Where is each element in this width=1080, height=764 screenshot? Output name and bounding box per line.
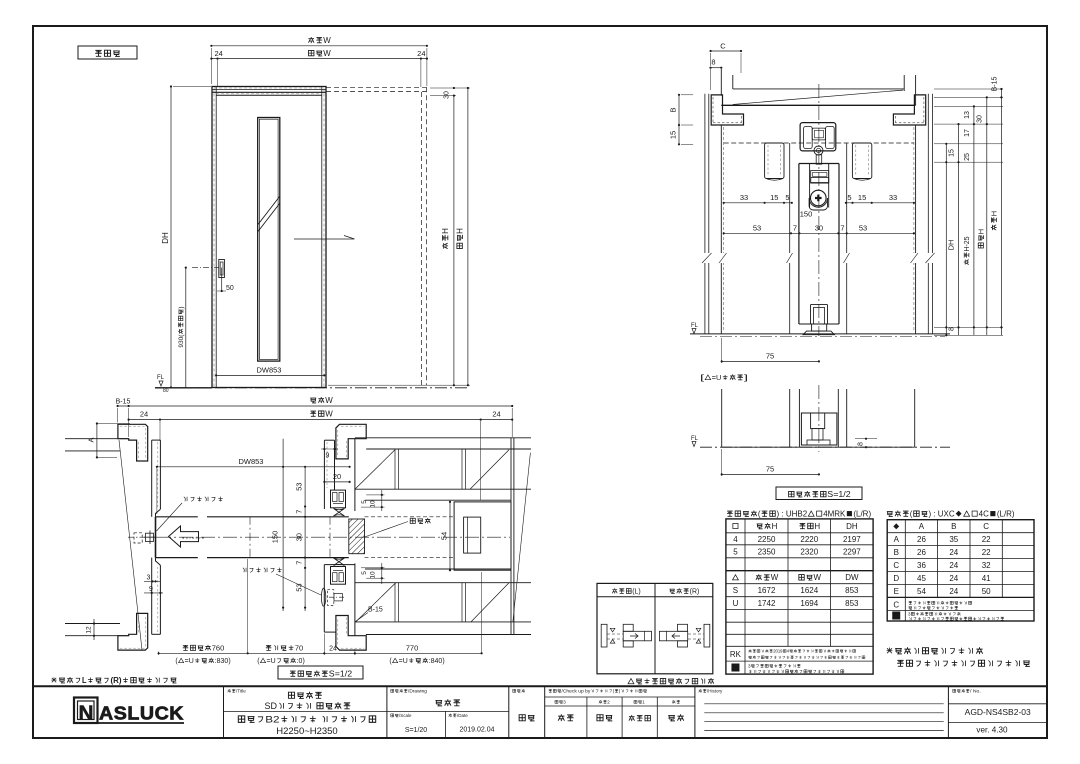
plan: 5/10 dims lower	[381, 563, 383, 584]
plan: lower-right jamb stop strip	[324, 564, 355, 566]
svg-text:(R): (R)	[110, 676, 121, 685]
svg-text:760: 760	[212, 644, 225, 653]
svg-text:U: U	[733, 599, 739, 608]
svg-text:50: 50	[982, 587, 991, 596]
svg-text:N: N	[79, 703, 94, 725]
svg-text:7: 7	[793, 224, 797, 233]
plan: upper truss diagonals	[355, 450, 395, 489]
hanger screw head	[811, 190, 827, 206]
svg-text:RK: RK	[730, 650, 742, 659]
title block cell 図面種別 dividers	[387, 710, 509, 712]
plan: cushion hatched block 緩衝材	[349, 519, 365, 554]
svg-text:9: 9	[326, 453, 330, 460]
table 建具本体 RK note row	[730, 650, 742, 659]
section view: dimension 8	[711, 67, 722, 69]
break gaps in long verticals (section)	[702, 253, 712, 263]
svg-text:150: 150	[800, 210, 813, 219]
sliding direction arrow	[294, 238, 354, 240]
svg-text:AGD-NS4SB2-03: AGD-NS4SB2-03	[965, 707, 1031, 717]
svg-text:930(: 930(	[178, 334, 185, 348]
svg-text:D: D	[893, 574, 899, 583]
svg-text:DH: DH	[161, 232, 170, 244]
table 建具枠 title	[887, 510, 1015, 519]
hanger roller nut	[814, 146, 823, 155]
svg-text:36: 36	[917, 561, 926, 570]
plan: soft-close pin lower jamb	[321, 588, 325, 606]
svg-text:26: 26	[917, 548, 926, 557]
plan: 12 dim	[93, 619, 95, 640]
svg-text:(L/R): (L/R)	[997, 510, 1015, 519]
door bottom guide (section)	[810, 305, 812, 324]
lower sub-view floor dash-dot	[700, 446, 950, 448]
plan: lower pocket wall lines	[365, 568, 511, 570]
svg-text:/ No.: / No.	[970, 689, 981, 694]
label △=Uの場合	[700, 373, 748, 382]
svg-text:A: A	[919, 522, 925, 531]
svg-text:H: H	[990, 211, 999, 216]
lower sub-view centerline	[818, 385, 820, 452]
svg-text:/Check up by: /Check up by	[562, 689, 592, 694]
svg-text:H: H	[456, 228, 465, 234]
right wall verticals (section)	[927, 94, 929, 334]
right handle diagram	[704, 624, 710, 647]
svg-text:70: 70	[295, 644, 303, 653]
door handle	[219, 260, 225, 278]
plan: phantom door dashed in pocket	[365, 516, 455, 518]
svg-text:1672: 1672	[758, 586, 776, 595]
svg-text:FL: FL	[157, 375, 165, 381]
svg-text:9: 9	[149, 586, 153, 593]
dimension 枠内H (right)	[453, 96, 455, 386]
plan: lower-right jamb casing	[336, 616, 366, 651]
svg-text:26: 26	[917, 535, 926, 544]
history cell lines	[704, 703, 943, 705]
svg-text::830): :830)	[215, 658, 231, 665]
svg-text:54: 54	[440, 532, 449, 540]
svg-text:B: B	[894, 548, 899, 557]
svg-text:5: 5	[847, 193, 851, 202]
svg-text:4C: 4C	[979, 510, 989, 519]
plan: catch hardware upper	[331, 490, 346, 508]
svg-text:DW: DW	[845, 573, 859, 582]
svg-text:8: 8	[949, 327, 956, 331]
svg-text:=U: =U	[267, 658, 276, 665]
svg-text:24: 24	[949, 587, 958, 596]
plan: screw bowtie upper	[334, 509, 345, 517]
svg-text:10: 10	[370, 571, 377, 579]
svg-text:2250: 2250	[758, 535, 776, 544]
plan: 5/10 dims upper	[381, 490, 383, 511]
svg-text:H: H	[772, 522, 778, 531]
svg-text:/History: /History	[707, 689, 723, 694]
svg-text:4: 4	[733, 535, 738, 544]
door top mortise for hanger	[809, 164, 811, 208]
svg-text:13: 13	[964, 111, 971, 119]
handle center dash leader	[192, 267, 219, 269]
plan: ビスキャップ label upper	[184, 497, 223, 502]
svg-text:W: W	[325, 396, 333, 405]
svg-text:24: 24	[417, 49, 425, 58]
plan: left jamb stop strip	[152, 439, 161, 441]
svg-text:ASLUCK: ASLUCK	[99, 703, 184, 724]
svg-text:2197: 2197	[843, 535, 861, 544]
plan: ビスキャップ label lower	[243, 568, 282, 573]
svg-text:22: 22	[982, 535, 991, 544]
svg-text:15: 15	[949, 149, 956, 157]
plan: upper-right jamb casing	[336, 424, 366, 459]
pull-handle table 左引手/右引手	[597, 583, 713, 673]
plan: 54 dim	[449, 502, 451, 570]
front view door frame inner lines	[215, 87, 217, 388]
front view door frame outline	[212, 87, 326, 388]
svg-text:1742: 1742	[758, 599, 776, 608]
svg-text:E: E	[894, 587, 899, 596]
note 本図はLを示し	[51, 676, 176, 685]
title block top border	[33, 685, 1047, 687]
right head casing bracket	[893, 95, 925, 125]
plan: right break diagonal	[513, 453, 531, 622]
plan: left jamb lower stop strip	[152, 633, 161, 635]
svg-text:A: A	[894, 535, 900, 544]
svg-text:30: 30	[295, 533, 304, 541]
svg-text:B-15: B-15	[992, 77, 999, 92]
svg-text:(: (	[910, 510, 913, 519]
left head casing bracket	[711, 95, 743, 125]
title block headers tiny	[228, 689, 247, 694]
hanger rail assembly	[800, 123, 836, 151]
floor line (section)	[690, 333, 950, 335]
plan: dimension A (left)	[96, 424, 98, 458]
plan: dimension DW853	[157, 466, 350, 468]
title block cell 名称 divider	[224, 710, 387, 712]
svg-text:32: 32	[982, 561, 991, 570]
svg-text:20: 20	[333, 472, 341, 481]
svg-text:35: 35	[949, 535, 958, 544]
table 建具枠 C note row	[893, 601, 899, 610]
svg-text:2297: 2297	[843, 547, 861, 556]
svg-text:853: 853	[845, 586, 859, 595]
svg-text:53: 53	[859, 224, 867, 233]
dimension DH (left)	[170, 87, 172, 388]
svg-text:/Title: /Title	[236, 689, 246, 694]
svg-text:(L): (L)	[632, 589, 641, 596]
table 建具本体 grid	[726, 519, 873, 674]
svg-text:3: 3	[908, 612, 911, 617]
glass break diagonal marks	[258, 204, 280, 232]
dimension 75 (upper)	[722, 360, 819, 362]
svg-text:30: 30	[815, 224, 823, 233]
svg-text:53: 53	[295, 583, 304, 591]
svg-text:24: 24	[949, 561, 958, 570]
svg-text:C: C	[720, 42, 726, 51]
dimension 枠内W with 24 offsets	[211, 58, 427, 60]
svg-text:3: 3	[147, 575, 151, 582]
svg-text:C: C	[983, 522, 989, 531]
svg-text:S=1/20: S=1/20	[405, 727, 427, 734]
svg-text:53: 53	[295, 483, 304, 491]
hanger stem	[816, 155, 822, 164]
section detail label box 断面詳細図 S=1/2 (bottom)	[278, 666, 363, 679]
svg-text:(R): (R)	[690, 589, 700, 596]
hanging stop blocks	[765, 143, 784, 179]
svg-text:DH: DH	[846, 522, 858, 531]
section detail label box 断面詳細図 S=1/2 (right)	[776, 487, 862, 500]
svg-text::840): :840)	[429, 658, 445, 665]
svg-text::0): :0)	[297, 658, 305, 665]
svg-text:7: 7	[295, 561, 304, 565]
section view: dimension C	[711, 50, 741, 52]
door panel (vertical section)	[799, 163, 839, 165]
svg-text:2019: 2019	[773, 649, 783, 654]
door centerline (dash-dot)	[818, 84, 820, 336]
number cell dividers	[948, 703, 1047, 705]
svg-text:=U: =U	[399, 658, 408, 665]
plan: screw bowtie lower	[334, 558, 345, 566]
svg-text:W: W	[323, 36, 331, 45]
left wall verticals (section)	[704, 94, 706, 334]
plan: extension lines from dims	[117, 408, 119, 422]
svg-text:=U: =U	[185, 658, 194, 665]
svg-text:30: 30	[444, 91, 451, 99]
svg-text:) : UHB2: ) : UHB2	[777, 510, 808, 519]
plan: 9 dim upper-right	[321, 448, 338, 450]
svg-text:B: B	[669, 107, 678, 112]
plan: door centerline	[157, 536, 510, 538]
right dim labels	[949, 149, 956, 157]
plan: wall break diagonal (left)	[119, 440, 142, 650]
svg-text:5: 5	[733, 547, 738, 556]
svg-text:A: A	[87, 437, 96, 442]
svg-text:8: 8	[858, 442, 865, 446]
dimension 8 lower sub-view	[855, 438, 877, 440]
pocket dashed outline (door slides into wall)	[326, 86, 427, 88]
svg-text:FL: FL	[691, 323, 699, 329]
svg-text:5: 5	[785, 193, 789, 202]
svg-text:B: B	[951, 522, 956, 531]
NASLUCK logo	[74, 698, 98, 724]
svg-text:54: 54	[917, 587, 926, 596]
svg-text:(L/R): (L/R)	[853, 510, 871, 519]
svg-text:24: 24	[215, 49, 223, 58]
pocket slot face lines (section)	[789, 143, 791, 334]
plan: lower-left jamb casing	[118, 613, 148, 650]
plan: middle vertical dims 150 and 53/7/30/7/53	[282, 439, 284, 611]
title block texts	[288, 692, 321, 699]
svg-text:/Drawing: /Drawing	[408, 689, 428, 694]
svg-text:53: 53	[753, 224, 761, 233]
svg-text:SD: SD	[264, 701, 277, 711]
lower sub-view verticals (U type)	[721, 389, 723, 447]
svg-text:45: 45	[917, 574, 926, 583]
plan: upper-right jamb stop strip	[324, 439, 334, 441]
FL marker lower sub-view	[691, 436, 699, 442]
svg-text:DW853: DW853	[239, 457, 264, 466]
svg-text:50: 50	[226, 285, 234, 292]
right dim cluster verticals	[945, 144, 947, 335]
svg-text:2350: 2350	[758, 547, 776, 556]
svg-text:24: 24	[949, 574, 958, 583]
svg-text:24: 24	[492, 410, 500, 419]
svg-text:W: W	[323, 49, 331, 58]
note 引手は選択できます	[887, 647, 983, 654]
table 建具枠 ■ note row	[892, 612, 900, 620]
svg-text:25: 25	[964, 153, 971, 161]
dimension 150 label	[800, 210, 813, 219]
svg-text:22: 22	[982, 548, 991, 557]
plan: upper-right wall face	[354, 439, 356, 511]
svg-text:B-15: B-15	[116, 399, 131, 406]
glass panel of door	[258, 118, 280, 362]
svg-text:C: C	[893, 601, 899, 610]
head top line and slant	[733, 88, 904, 90]
dimension 930(引手中心)	[185, 268, 187, 388]
svg-text:B2: B2	[265, 715, 279, 726]
svg-text:2220: 2220	[800, 535, 818, 544]
plan: left wall lines	[65, 438, 129, 440]
svg-text:3: 3	[748, 664, 751, 669]
svg-text:15: 15	[770, 193, 778, 202]
svg-text:24: 24	[949, 548, 958, 557]
plan: 20 dim	[324, 481, 349, 483]
dimension 50 (handle)	[221, 268, 223, 291]
svg-text:=U: =U	[712, 373, 722, 382]
svg-text:41: 41	[982, 574, 991, 583]
svg-text:33: 33	[740, 193, 748, 202]
plan: soft-close pin at door end	[134, 533, 142, 543]
svg-text:DW853: DW853	[257, 366, 282, 375]
plan: B-15 label lower	[368, 607, 383, 614]
dimension 75 (lower)	[722, 473, 819, 475]
svg-text:75: 75	[766, 465, 774, 474]
FL marker front view	[157, 375, 165, 381]
plan: door panel	[156, 516, 198, 518]
table 建具本体 contents	[733, 523, 738, 528]
svg-text:FL: FL	[691, 436, 699, 442]
ground dash-dot line under front view	[155, 387, 470, 389]
svg-text:H: H	[977, 229, 986, 234]
svg-text:8: 8	[711, 58, 715, 67]
table 建具本体 title	[727, 510, 871, 519]
plan: upper studs	[394, 449, 396, 489]
plan: catch hardware lower	[331, 567, 346, 585]
plan: pocket receiving box	[454, 502, 511, 570]
plan: door panel break dash-dots	[249, 517, 251, 558]
plan: lower truss diagonals	[356, 583, 396, 622]
plan: top-left jamb casing profile	[118, 424, 148, 461]
svg-text:W: W	[771, 573, 779, 582]
svg-text:24: 24	[329, 646, 337, 653]
left handle diagram	[601, 624, 607, 647]
front-view title box 正面図	[78, 46, 137, 59]
svg-text:33: 33	[889, 193, 897, 202]
right dim cluster ticks	[945, 143, 947, 145]
svg-text:4MRK: 4MRK	[823, 510, 846, 519]
svg-text:(: (	[758, 510, 761, 519]
svg-text:W: W	[814, 573, 822, 582]
handle note △印は引手位置を示す	[628, 678, 714, 684]
svg-text:10: 10	[370, 500, 377, 508]
svg-text:15: 15	[669, 131, 678, 139]
svg-text:30: 30	[977, 115, 984, 123]
svg-text:75: 75	[766, 352, 774, 361]
plan: lower studs	[394, 583, 396, 622]
svg-text:/Date: /Date	[457, 713, 468, 718]
svg-text:5: 5	[361, 571, 368, 575]
svg-text:ver. 4.30: ver. 4.30	[976, 726, 1008, 735]
svg-text:S=1/2: S=1/2	[827, 490, 851, 499]
plan: soft close arrow ソフトクローズ	[169, 526, 199, 547]
svg-text:H-25: H-25	[964, 236, 971, 251]
svg-text:2019.02.04: 2019.02.04	[459, 727, 494, 734]
svg-text:S=1/2: S=1/2	[329, 670, 353, 679]
dimension line 33/15/5 left	[724, 202, 792, 204]
dimension 枠外W (top)	[211, 45, 427, 47]
svg-text:7: 7	[840, 224, 844, 233]
plan: bottom dimension line 有効開口 etc	[159, 652, 482, 654]
svg-text:12: 12	[86, 626, 93, 634]
svg-text:) : UXC: ) : UXC	[928, 510, 954, 519]
plan: pocket end verticals	[510, 438, 512, 635]
dimension line 53/7/30/7/53	[724, 232, 914, 234]
wall studs above head	[720, 69, 722, 96]
svg-text:17: 17	[964, 129, 971, 137]
svg-text:S: S	[733, 586, 738, 595]
plan: lower-left wall lines	[65, 623, 120, 625]
svg-text:24: 24	[140, 410, 148, 419]
svg-text:C: C	[893, 561, 899, 570]
svg-text:H2250~H2350: H2250~H2350	[276, 726, 337, 737]
lower sub-view floor guide	[801, 413, 837, 445]
svg-text:/Scale: /Scale	[399, 713, 412, 718]
FL marker section	[691, 323, 699, 329]
svg-text:7: 7	[295, 510, 304, 514]
right dim extension lines	[934, 88, 1003, 90]
svg-text:80: 80	[163, 388, 169, 394]
svg-text:W: W	[325, 410, 333, 419]
svg-text:1624: 1624	[800, 586, 818, 595]
dimension 30 (head)	[453, 87, 455, 89]
plan: dimension 枠内W with 24s	[129, 419, 513, 421]
check-up cell dividers	[545, 696, 695, 698]
dimension line 5/15/33 right	[846, 202, 914, 204]
soffit dashed line	[724, 142, 914, 144]
svg-text:2320: 2320	[800, 547, 818, 556]
svg-text:H: H	[814, 522, 820, 531]
svg-text:L: L	[82, 676, 87, 685]
table 建具枠 grid	[887, 520, 1034, 621]
plan: 3 and 9 dims lower-left	[144, 580, 160, 582]
plan: cushion label 緩衝材	[410, 518, 430, 524]
plan: upper pocket wall lines	[355, 437, 531, 439]
jamb inner faces	[720, 125, 722, 334]
svg-text:]: ]	[744, 373, 748, 382]
svg-text:853: 853	[845, 599, 859, 608]
svg-text:): )	[178, 306, 185, 308]
dimension DW853 under door	[216, 374, 324, 376]
svg-text:DH: DH	[947, 240, 956, 251]
svg-text:770: 770	[406, 644, 419, 653]
svg-text:150: 150	[271, 531, 280, 544]
svg-text:1694: 1694	[800, 599, 818, 608]
table 建具本体 ■ note row	[731, 664, 739, 672]
plan: dimension 枠外W	[118, 405, 513, 407]
dimension 枠外H (right)	[467, 88, 469, 385]
svg-text:H: H	[441, 228, 450, 234]
front view head jamb lines	[212, 89, 326, 91]
svg-text:15: 15	[858, 193, 866, 202]
title block verticals	[223, 686, 225, 738]
left dims B and 15	[678, 95, 680, 145]
